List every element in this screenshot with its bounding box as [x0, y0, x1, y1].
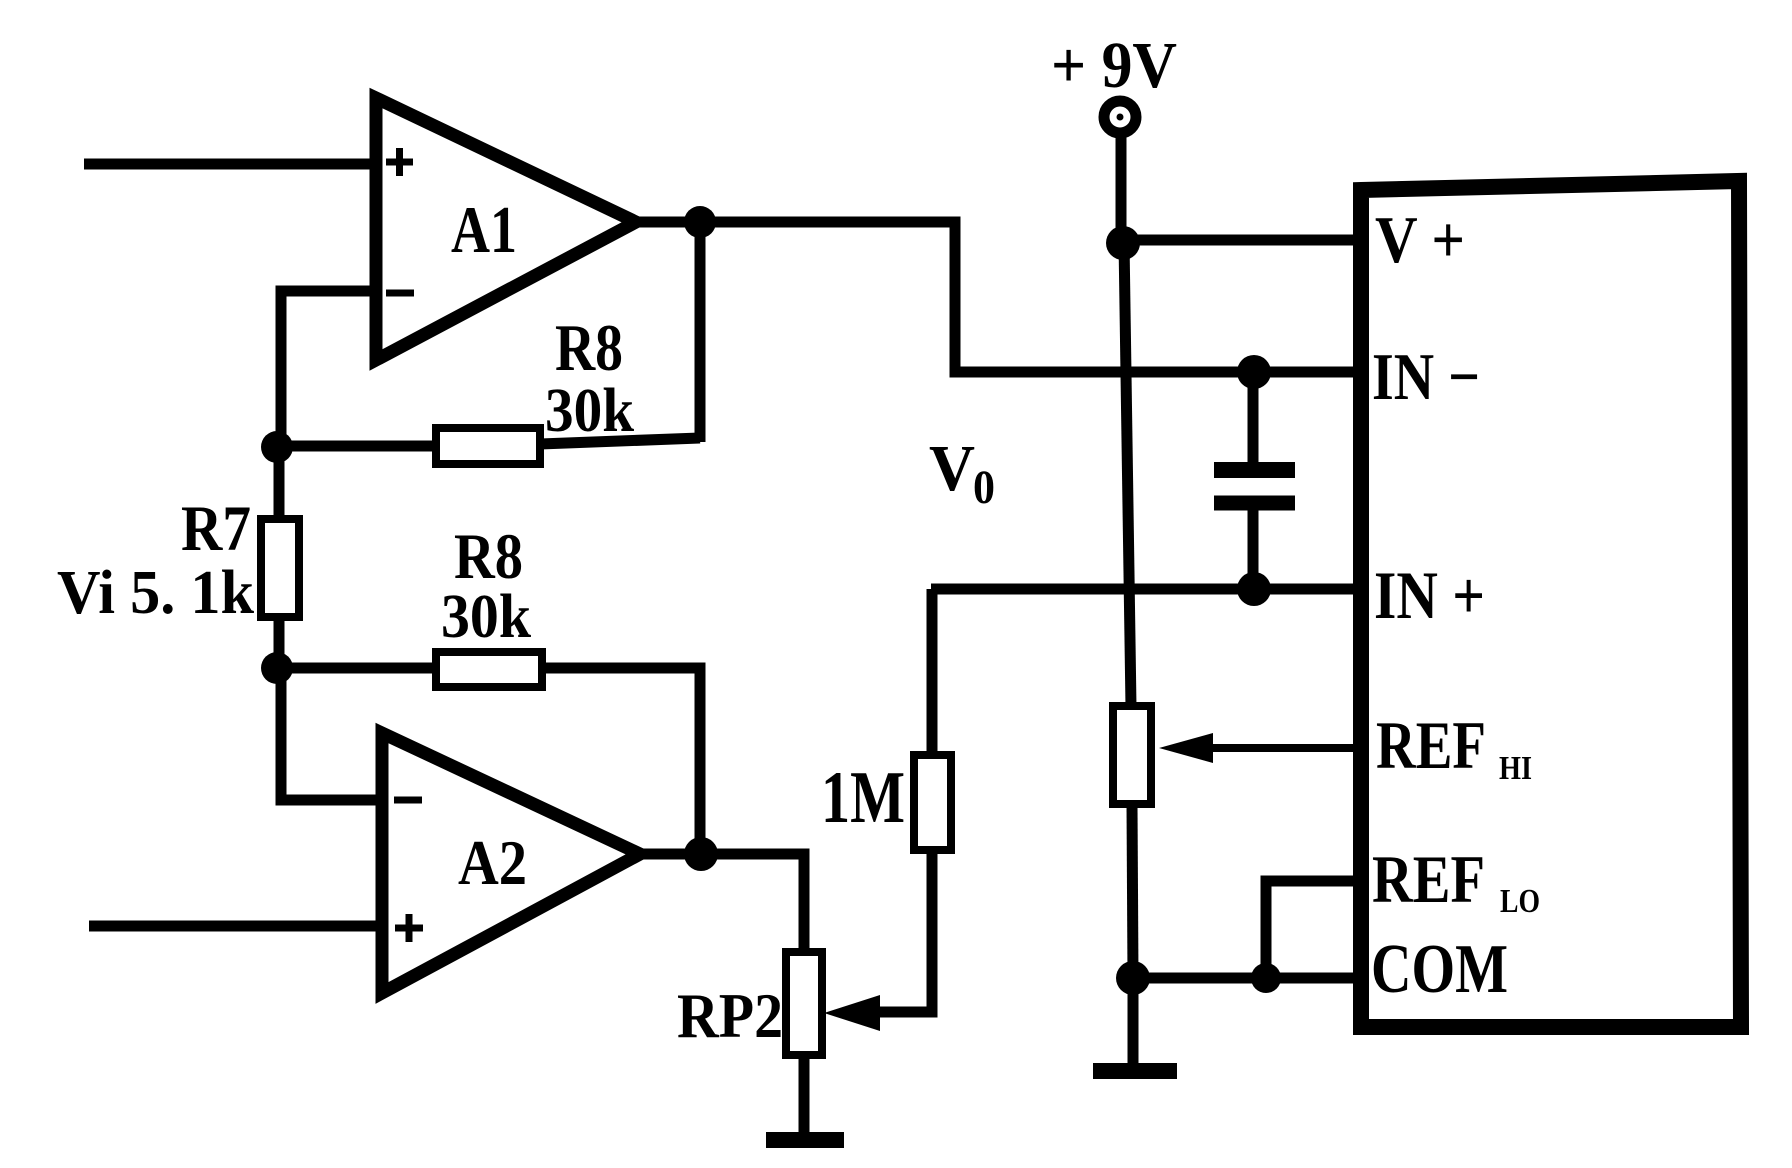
op-amp A1: [376, 98, 636, 360]
wire A1 inverting input: [281, 291, 376, 447]
wire A2 noninverting input: [89, 921, 382, 932]
IC box: [1361, 181, 1741, 1027]
svg-text:HI: HI: [1499, 750, 1532, 787]
wire feedback vertical from A1 output: [695, 222, 706, 442]
wire REF LO: [1266, 881, 1361, 978]
wire V+: [1123, 235, 1361, 246]
wire A1 noninverting input: [84, 159, 376, 170]
wire R8 bottom to A2 output node: [542, 668, 700, 854]
wire COM: [1133, 973, 1361, 984]
node COM rail: [1116, 961, 1150, 995]
svg-text:1M: 1M: [821, 757, 905, 839]
svg-text:R7: R7: [181, 493, 251, 565]
wire pot to COM node: [1132, 804, 1133, 978]
svg-text:A2: A2: [458, 827, 527, 898]
svg-text:COM: COM: [1371, 931, 1508, 1008]
potentiometer RP2: [677, 952, 822, 1055]
svg-text:RP2: RP2: [677, 980, 783, 1051]
capacitor: [1214, 372, 1295, 589]
svg-text:Vi 5. 1k: Vi 5. 1k: [57, 559, 254, 627]
node IN- capacitor: [1237, 355, 1271, 389]
wire A2 inverting input: [281, 668, 382, 800]
pin label REF LO: [1372, 841, 1540, 920]
node J1: [261, 431, 293, 463]
svg-text:R8: R8: [555, 311, 623, 385]
resistor 1M: [821, 755, 951, 850]
svg-text:IN −: IN −: [1372, 340, 1480, 414]
wire 1M branch down: [927, 589, 938, 756]
potentiometer REF: [1113, 706, 1151, 804]
wire A2 output to RP2: [640, 854, 804, 952]
node A2 output: [684, 837, 718, 871]
node IN+ capacitor: [1237, 572, 1271, 606]
label V0: [929, 432, 995, 514]
arrowhead RP2 wiper: [824, 995, 880, 1031]
resistor R8 (top) 30k: [436, 311, 634, 464]
node A1 output: [684, 206, 716, 238]
power terminal +9V: [1051, 29, 1177, 241]
wire IN+ line: [931, 584, 1361, 595]
wire J1 to R8 top: [279, 441, 436, 452]
wire 1M to RP2 wiper: [876, 850, 932, 1012]
op-amp A2: [382, 733, 640, 993]
svg-text:REF: REF: [1376, 707, 1486, 783]
svg-text:LO: LO: [1500, 883, 1540, 920]
node J2: [261, 652, 293, 684]
svg-text:REF: REF: [1372, 841, 1485, 917]
svg-text:V: V: [929, 432, 975, 505]
wire J2 to R8 bottom: [279, 663, 436, 674]
ground (rail): [1093, 1063, 1177, 1079]
resistor R8 (bottom) 30k: [436, 521, 542, 687]
wire R8 top to A1 output node: [540, 438, 700, 444]
ground (RP2): [766, 1132, 844, 1148]
svg-text:30k: 30k: [545, 377, 634, 445]
svg-text:30k: 30k: [441, 583, 531, 651]
svg-text:+ 9V: + 9V: [1051, 29, 1177, 102]
svg-text:0: 0: [973, 461, 995, 514]
resistor R7 5.1k: [57, 460, 299, 656]
node V+ rail: [1106, 226, 1140, 260]
svg-text:A1: A1: [451, 193, 517, 267]
svg-text:IN +: IN +: [1374, 557, 1485, 633]
wire rail to ground: [1128, 978, 1139, 1066]
wire A1 output to IN-: [636, 222, 1361, 372]
wire RP2 to ground: [799, 1055, 810, 1136]
pin label REF HI: [1376, 707, 1532, 787]
wire power rail down: [1124, 241, 1131, 707]
node REF LO: [1251, 963, 1281, 993]
arrowhead REF HI wiper: [1159, 733, 1213, 763]
wire REF HI: [1206, 744, 1361, 752]
svg-text:V +: V +: [1375, 203, 1465, 277]
